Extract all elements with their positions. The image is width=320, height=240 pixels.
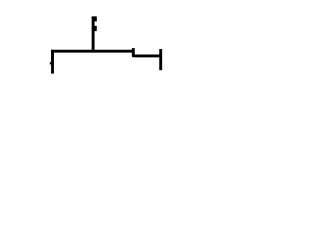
tick on terminal T1: [50, 62, 52, 64]
terminal T1 (left end bar): [51, 50, 54, 74]
jog tick N1 (step junction): [132, 48, 135, 57]
wire W2 (vertical stem to component): [92, 17, 95, 53]
component X1 bracket: upper right tick: [94, 19, 96, 21]
wire W3 (lower horizontal net): [133, 54, 161, 57]
terminal T2 (right end bar): [159, 49, 162, 70]
component X1 bracket: lower right tick: [94, 26, 96, 29]
wire W1 (top horizontal net): [51, 50, 134, 53]
component X1 bracket: top arm: [92, 16, 97, 19]
component X1 bracket: bottom arm: [92, 28, 97, 31]
